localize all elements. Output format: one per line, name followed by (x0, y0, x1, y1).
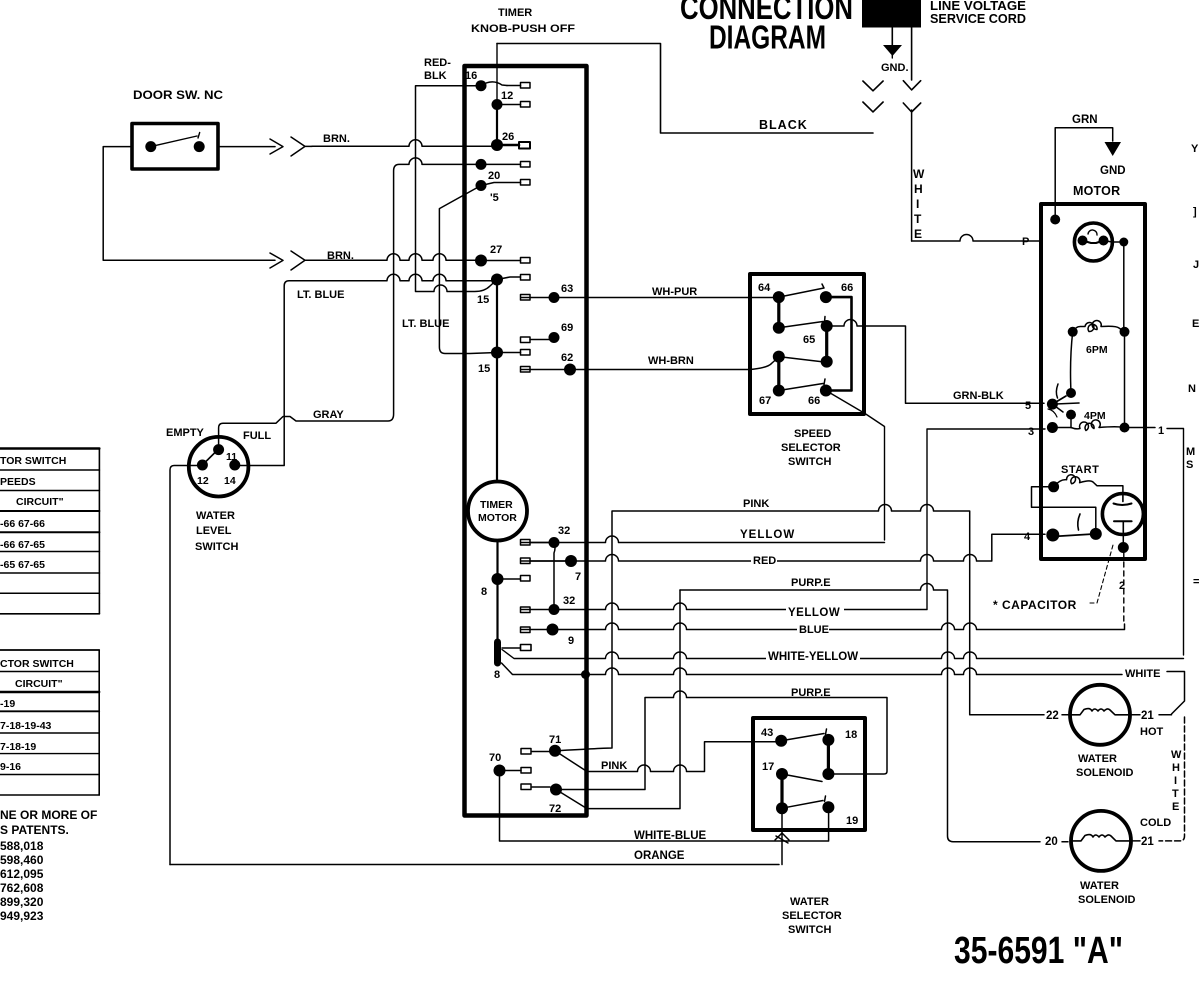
ground (motor GND arrow) (1105, 142, 1122, 156)
motor terminal 5 with blade (1047, 384, 1079, 417)
leader capacitor label (1090, 545, 1113, 603)
node 43 (775, 735, 787, 747)
svg-text:LT. BLUE: LT. BLUE (297, 289, 344, 301)
node GRN entry dot (1050, 215, 1060, 225)
wire door switch right (218, 146, 275, 148)
wire WLS 12 left down (orange run) (170, 466, 202, 865)
svg-text:WATER: WATER (196, 510, 235, 522)
bar 65 pair (825, 326, 828, 362)
label WATER SOLENOID (hot) (1076, 753, 1134, 779)
wire YELLOW (timer 32a to speed 66) (521, 536, 885, 543)
label TIMER KNOB-PUSH OFF (471, 7, 575, 35)
bar 67 pair (777, 357, 780, 391)
blade 64 to 66 (779, 284, 824, 297)
svg-text:LT. BLUE: LT. BLUE (402, 318, 449, 330)
node 19 (822, 801, 834, 813)
label WATER SOLENOID (cold) (1078, 880, 1136, 906)
svg-text:SWITCH: SWITCH (788, 924, 831, 936)
node timer 71 (549, 745, 561, 757)
lug 71 (521, 749, 552, 755)
label WATER LEVEL SWITCH (195, 510, 238, 553)
node timer 12 (492, 99, 503, 110)
svg-text:YELLOW: YELLOW (740, 529, 795, 541)
label WHITE (vertical) (913, 167, 925, 241)
wire GRAY (water level 11 to timer 20) (219, 158, 476, 446)
lug 8 (498, 576, 531, 582)
svg-text:7-18-19: 7-18-19 (0, 741, 36, 753)
winding 4PM on 3-1 line (1052, 332, 1129, 433)
node timer 15 lower (491, 347, 503, 359)
node timer 5 (476, 180, 487, 191)
node wire at timer edge (581, 670, 590, 679)
water selector switch (box) (753, 718, 865, 830)
wire 15 bus (496, 280, 498, 483)
svg-text:T: T (914, 212, 922, 226)
svg-text:PINK: PINK (601, 760, 627, 772)
lug 9 (521, 627, 531, 633)
lug junction (502, 645, 531, 651)
service cord (black block) (862, 0, 921, 28)
node timer 9 (547, 624, 559, 636)
node 64 (773, 291, 785, 303)
svg-text:12: 12 (501, 90, 513, 102)
svg-text:8: 8 (494, 669, 500, 681)
wire motor3 riser (yellow2 to motor 3) (927, 429, 1045, 609)
start switch contacts (1046, 514, 1102, 542)
svg-text:9: 9 (568, 635, 574, 647)
svg-text:PINK: PINK (743, 498, 769, 510)
bar 17 pair (780, 774, 783, 808)
svg-text:BRN.: BRN. (323, 133, 350, 145)
svg-text:PURP.E: PURP.E (791, 577, 831, 589)
connector arrows row 2 (270, 251, 312, 270)
wire WHITE-YELLOW (timer junction to motor 1) (502, 650, 1184, 659)
blade 67 to 66b (779, 379, 825, 391)
winding 6PM (1068, 321, 1130, 337)
node 17b (776, 802, 788, 814)
wire YELLOW 2 (timer 32b to motor 3 riser) (521, 603, 927, 610)
lug 15 upper (497, 275, 530, 281)
svg-text:66: 66 (841, 282, 853, 294)
svg-text:I: I (1174, 775, 1177, 787)
svg-text:4: 4 (1024, 531, 1031, 543)
svg-text:18: 18 (845, 729, 857, 741)
coil hot solenoid (1070, 709, 1130, 715)
lug 20 (481, 162, 530, 168)
svg-text:43: 43 (761, 727, 773, 739)
svg-text:21: 21 (1141, 836, 1154, 848)
wire 6PM left to speed contact (1071, 332, 1073, 393)
node WLS 11 (213, 444, 224, 455)
svg-text:HOT: HOT (1140, 726, 1164, 738)
svg-text:PURP.E: PURP.E (791, 687, 831, 699)
wire PURPLE (to cold solenoid 20) (680, 584, 1068, 842)
wire RED-BLK (timer 16 riser) (416, 86, 498, 292)
svg-text:14: 14 (224, 475, 236, 487)
svg-text:27: 27 (490, 244, 502, 256)
junction bar (timer common) (494, 642, 501, 663)
node timer 32b (549, 604, 560, 615)
wire 12 to 26 (496, 105, 498, 146)
bar 64 to 64b (777, 297, 780, 328)
svg-text:WHITE: WHITE (1125, 668, 1160, 680)
svg-text:GRN: GRN (1072, 114, 1098, 126)
svg-text:32: 32 (563, 595, 575, 607)
wire WH-BRN (timer 62 to speed 67upper) (521, 357, 779, 370)
svg-text:9-16: 9-16 (0, 761, 21, 773)
svg-text:WATER: WATER (790, 896, 829, 908)
blade 67upper to 65b (779, 357, 821, 362)
wire PINK lower (timer 71 blade to selector 43) (555, 742, 776, 772)
node 65 top (821, 320, 833, 332)
svg-text:FULL: FULL (243, 430, 271, 442)
svg-text:72: 72 (549, 803, 561, 815)
label BLUE (797, 621, 829, 634)
svg-text:1: 1 (1158, 425, 1164, 437)
node timer 16 (476, 80, 487, 91)
overload protector (motor) (1074, 223, 1112, 261)
node timer 69 + lug (521, 332, 560, 343)
label WHITE-YELLOW (766, 647, 860, 660)
svg-text:ORANGE: ORANGE (634, 850, 685, 862)
svg-text:TIMER: TIMER (480, 499, 513, 511)
capacitor (circle) (1102, 494, 1143, 535)
ground (service cord GND arrow) (883, 28, 902, 59)
lug 62 (521, 367, 531, 373)
node 18 (822, 734, 834, 746)
lug 72 (521, 784, 550, 790)
right edge text fragments (1186, 143, 1199, 588)
svg-text:899,320: 899,320 (0, 895, 44, 909)
svg-text:DOOR SW. NC: DOOR SW. NC (133, 88, 223, 102)
svg-text:65: 65 (803, 334, 815, 346)
wire 66 top to 66 bottom (inner) (826, 297, 852, 390)
node timer 32a (549, 537, 560, 548)
node WLS 12 (197, 460, 208, 471)
node motor speed contact upper (1066, 388, 1076, 398)
node 67 upper (773, 351, 785, 363)
node timer 7 (565, 555, 577, 567)
node 67 (773, 385, 785, 397)
lug 7 (521, 558, 566, 564)
svg-text:WHITE-BLUE: WHITE-BLUE (634, 830, 707, 842)
svg-text:LEVEL: LEVEL (196, 525, 232, 537)
node 65 bottom (821, 356, 833, 368)
svg-text:* CAPACITOR: * CAPACITOR (993, 598, 1077, 612)
svg-text:H: H (1172, 762, 1180, 774)
svg-text:7: 7 (575, 571, 581, 583)
svg-text:20: 20 (1045, 836, 1058, 848)
svg-text:32: 32 (558, 525, 570, 537)
svg-text:612,095: 612,095 (0, 867, 44, 881)
blade WLS 12 to 11 (202, 446, 221, 465)
svg-text:67: 67 (759, 395, 771, 407)
node timer 26 (491, 139, 503, 151)
wire WHITE (service cord to motor P) (912, 110, 1040, 241)
svg-text:17: 17 (762, 761, 774, 773)
node timer 8 (492, 573, 504, 585)
lug 63 (521, 295, 531, 301)
wire timer 12 to top (black) (496, 44, 498, 105)
junction ticks orange/white-blue (775, 833, 789, 843)
label WHITE (vertical) (1171, 749, 1182, 813)
svg-text:WH-PUR: WH-PUR (652, 286, 697, 298)
table 2 text (0, 658, 74, 773)
label WATER SELECTOR SWITCH (782, 896, 842, 936)
node rail top (1119, 238, 1128, 247)
svg-text:RED: RED (753, 555, 776, 567)
wire 32a to 32b (554, 543, 555, 610)
svg-text:J: J (1193, 259, 1199, 271)
svg-text:CTOR SWITCH: CTOR SWITCH (0, 658, 74, 670)
water solenoid COLD (circle) (1071, 811, 1131, 871)
svg-text:WATER: WATER (1078, 753, 1117, 765)
wire PURPLE lower (timer 72 to selector mid) (556, 691, 887, 790)
svg-text:-65 67-65: -65 67-65 (0, 559, 45, 571)
wire timer 5 diagonal (439, 186, 497, 354)
svg-text:12: 12 (197, 475, 209, 487)
svg-text:SWITCH: SWITCH (788, 456, 831, 468)
motor terminal 3 (1047, 422, 1058, 433)
wire PINK (timer 71 to hot solenoid 22) (555, 505, 1070, 751)
lug 32b (521, 607, 531, 613)
node 66 bottom (820, 385, 832, 397)
wire motor 1 out (1125, 427, 1156, 429)
svg-text:588,018: 588,018 (0, 839, 44, 853)
svg-text:64: 64 (758, 282, 771, 294)
svg-text:CIRCUIT": CIRCUIT" (16, 496, 64, 508)
wire WHITE vertical (hot 21 to cold 21) (1159, 717, 1185, 841)
wire WHITE-BLUE (timer 70 to selector 19) (500, 771, 829, 842)
svg-text:SWITCH: SWITCH (195, 541, 238, 553)
svg-text:TOR SWITCH: TOR SWITCH (0, 455, 66, 467)
door switch (box) (132, 124, 218, 170)
svg-text:26: 26 (502, 131, 514, 143)
lug 5 (481, 180, 530, 186)
timer (box) (465, 66, 587, 816)
bar 18 to mid (827, 740, 830, 774)
wire BRN lower (to timer 27) (312, 254, 477, 260)
wire GRN-BLK (speed 65 to motor 5) (827, 320, 1044, 404)
svg-text:COLD: COLD (1140, 817, 1171, 829)
svg-text:69: 69 (561, 322, 573, 334)
svg-text:Y: Y (1191, 143, 1199, 155)
svg-text:H: H (914, 182, 923, 196)
svg-text:WATER: WATER (1080, 880, 1119, 892)
svg-text:WHITE-YELLOW: WHITE-YELLOW (768, 651, 858, 663)
svg-text:GRN-BLK: GRN-BLK (953, 390, 1004, 402)
svg-text:20: 20 (488, 170, 500, 182)
lug 70 (500, 768, 532, 774)
svg-text:15: 15 (477, 294, 489, 306)
svg-text:8: 8 (481, 586, 487, 598)
label RED (751, 553, 777, 565)
node 17 (776, 768, 788, 780)
svg-text:SELECTOR: SELECTOR (782, 910, 842, 922)
node WLS 14 (229, 460, 240, 471)
svg-text:'5: '5 (490, 192, 499, 204)
blade 17 to mid (782, 774, 822, 782)
svg-text:S PATENTS.: S PATENTS. (0, 823, 69, 837)
svg-text:598,460: 598,460 (0, 853, 44, 867)
timer motor TM1 (468, 482, 527, 541)
svg-text:19: 19 (846, 815, 858, 827)
node 66 top (820, 291, 832, 303)
svg-text:=: = (1193, 576, 1199, 588)
svg-text:762,608: 762,608 (0, 881, 44, 895)
svg-text:62: 62 (561, 352, 573, 364)
node mid right (822, 768, 834, 780)
svg-text:GND: GND (1100, 165, 1126, 177)
svg-text:T: T (1172, 788, 1179, 800)
svg-text:-66 67-65: -66 67-65 (0, 539, 45, 551)
node timer 72 (550, 784, 562, 796)
svg-text:N: N (1188, 383, 1196, 395)
svg-text:SOLENOID: SOLENOID (1078, 894, 1136, 906)
svg-text:YELLOW: YELLOW (788, 607, 840, 619)
wire BLUE (timer 9 to capacitor 2) (521, 623, 1125, 629)
svg-text:22: 22 (1046, 710, 1059, 722)
svg-text:70: 70 (489, 752, 501, 764)
wire timer 72 blade riser (to purple upper) (556, 590, 680, 809)
svg-text:P: P (1022, 236, 1029, 248)
svg-text:7-18-19-43: 7-18-19-43 (0, 720, 52, 732)
wire protector to right rail (1104, 241, 1124, 331)
svg-text:TIMER: TIMER (498, 7, 532, 19)
node 64b (773, 322, 785, 334)
wire BLACK (timer 12/26 to service cord) (497, 44, 873, 134)
wire LT BLUE (water level 14 to timer 15 upper) (235, 274, 497, 465)
lug 26 (497, 142, 530, 149)
svg-text:I: I (916, 197, 919, 211)
lug 12 (497, 102, 530, 108)
svg-text:BLACK: BLACK (759, 118, 808, 132)
connector chevrons (white wire side) (903, 28, 920, 113)
blade 43 to 18 (781, 729, 826, 741)
title CONNECTION DIAGRAM (680, 0, 853, 56)
svg-text:M: M (1186, 446, 1195, 458)
lug 32a (521, 540, 555, 546)
svg-text:63: 63 (561, 283, 573, 295)
svg-text:MOTOR: MOTOR (478, 512, 517, 524)
label LINE VOLTAGE SERVICE CORD (930, 0, 1026, 26)
svg-text:CIRCUIT": CIRCUIT" (15, 678, 63, 690)
svg-text:DIAGRAM: DIAGRAM (709, 19, 826, 56)
svg-text:66: 66 (808, 395, 820, 407)
water solenoid HOT (circle) (1070, 685, 1130, 745)
svg-text:-66 67-66: -66 67-66 (0, 518, 45, 530)
svg-text:6PM: 6PM (1086, 344, 1108, 356)
node timer 15 upper (491, 274, 503, 286)
water level switch (circle) (189, 437, 249, 497)
wire ORANGE (water level 12 to selector 17b) (170, 812, 782, 865)
wire WH-PUR (timer 63 to speed 64) (521, 297, 778, 299)
node capacitor bottom terminal (1118, 534, 1129, 553)
table 2 (cut off at left) (0, 650, 99, 795)
wire timer motor to junction (496, 541, 498, 643)
table 1 text (0, 455, 66, 571)
lug 16 (481, 82, 530, 88)
svg-text:15: 15 (478, 363, 490, 375)
blade 64b to 65 (779, 317, 825, 328)
start switch path (notch) (1032, 487, 1096, 530)
wire cold 21 stub (1131, 840, 1140, 842)
svg-text:BLUE: BLUE (799, 624, 829, 636)
svg-text:KNOB-PUSH OFF: KNOB-PUSH OFF (471, 23, 575, 35)
svg-text:EMPTY: EMPTY (166, 427, 205, 439)
svg-text:3: 3 (1028, 426, 1034, 438)
svg-text:E: E (914, 227, 922, 241)
svg-text:BLK: BLK (424, 70, 447, 82)
svg-text:W: W (1171, 749, 1182, 761)
svg-text:WH-BRN: WH-BRN (648, 355, 694, 367)
wire BRN upper (to timer 26) (312, 140, 491, 146)
motor M1 (box) (1041, 204, 1145, 559)
svg-text:MOTOR: MOTOR (1073, 184, 1120, 198)
connector arrows row 1 (270, 137, 312, 156)
svg-text:SERVICE CORD: SERVICE CORD (930, 11, 1026, 26)
label YELLOW 2 (786, 604, 844, 617)
svg-text:949,923: 949,923 (0, 909, 44, 923)
door switch contacts (145, 133, 204, 153)
svg-text:S: S (1186, 459, 1193, 471)
wire WHITE (timer junction to hot solenoid 21) (502, 663, 1185, 714)
svg-text:]: ] (1193, 206, 1197, 218)
svg-text:16: 16 (465, 70, 477, 82)
node timer 70 (494, 765, 506, 777)
svg-text:GND.: GND. (881, 62, 909, 74)
table 1 (cut off at left) (0, 449, 99, 614)
wire door switch left loop (103, 147, 275, 261)
svg-text:RED-: RED- (424, 57, 451, 69)
wire 66b to yellow riser (826, 391, 885, 541)
lug 15 lower (497, 350, 530, 356)
coil cold solenoid (1071, 835, 1131, 841)
label RED-BLK (424, 57, 451, 82)
svg-text:21: 21 (1141, 710, 1154, 722)
svg-text:35-6591 "A": 35-6591 "A" (954, 930, 1123, 972)
svg-text:-19: -19 (0, 698, 15, 710)
svg-text:NE OR MORE OF: NE OR MORE OF (0, 808, 97, 822)
lug 27 (481, 258, 530, 264)
node timer 62 (564, 364, 576, 376)
svg-text:GRAY: GRAY (313, 409, 344, 421)
node 4PM upper contact (1066, 410, 1076, 420)
svg-text:E: E (1192, 318, 1199, 330)
svg-text:SPEED: SPEED (794, 428, 831, 440)
wire GRN (motor ground) (1055, 128, 1113, 219)
connector chevrons (line side) (863, 81, 883, 112)
svg-text:START: START (1061, 464, 1099, 476)
wire RED (timer 7 to motor 4) (521, 534, 1045, 561)
svg-text:SOLENOID: SOLENOID (1076, 767, 1134, 779)
svg-text:PEEDS: PEEDS (0, 476, 36, 488)
node timer 20 (476, 159, 487, 170)
wire hot 21 stub (1130, 714, 1172, 716)
blade 17b to 19 (782, 796, 826, 808)
patents text (0, 808, 97, 923)
node timer 27 (475, 255, 487, 267)
speed selector switch (box) (750, 274, 864, 414)
label SPEED SELECTOR SWITCH (781, 428, 841, 468)
wire capacitor 2 to blue (dashed) (1123, 553, 1125, 624)
svg-text:E: E (1172, 801, 1179, 813)
svg-text:71: 71 (549, 734, 561, 746)
wire 1 to white-yellow riser (1167, 429, 1184, 656)
svg-text:5: 5 (1025, 400, 1031, 412)
node timer 63 (549, 292, 560, 303)
svg-text:SELECTOR: SELECTOR (781, 442, 841, 454)
